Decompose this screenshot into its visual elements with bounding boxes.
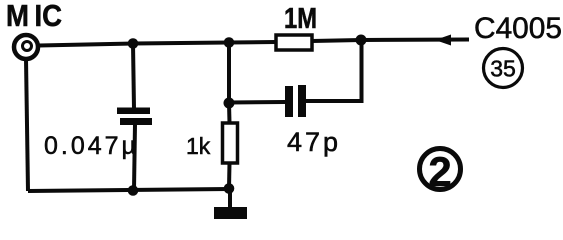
- resistor 1M: [276, 35, 312, 50]
- microphone jack connector MIC: [14, 35, 38, 59]
- wire: top rail from MIC to 1M resistor: [39, 42, 276, 46]
- wire: branch node to 1k resistor top: [227, 103, 232, 123]
- svg-text:1M: 1M: [284, 3, 317, 35]
- svg-text:2: 2: [428, 148, 451, 195]
- svg-text:1k: 1k: [186, 133, 211, 159]
- wire: middle vertical from top rail to branch node: [227, 43, 231, 104]
- svg-text:C4005: C4005: [474, 12, 562, 45]
- svg-text:M IC: M IC: [6, 0, 62, 33]
- node: junction dot at middle vertical / top rail: [224, 37, 235, 48]
- node: junction dot at 0.047u bottom / bottom rail: [128, 185, 139, 196]
- arrowhead pointing left on output wire: [435, 35, 451, 46]
- wire: bottom rail: [28, 189, 229, 191]
- node: junction dot at 1M right / 47p branch: [356, 35, 367, 46]
- svg-text:47p: 47p: [287, 127, 341, 157]
- node: junction dot at 0.047u top / top rail: [128, 38, 139, 49]
- wire: 0.047u capacitor top lead: [133, 44, 134, 110]
- wire: branch node to 47p left plate: [229, 100, 285, 105]
- capacitor 0.047u plates: [117, 108, 152, 126]
- svg-text:0.047µ: 0.047µ: [44, 132, 139, 160]
- node: junction dot at branch to 47p: [224, 98, 235, 109]
- circled pin number 35: [484, 49, 523, 88]
- wire: 0.047u capacitor bottom lead: [134, 124, 135, 190]
- wire: ground lead: [228, 189, 232, 209]
- ground symbol: [214, 207, 247, 219]
- resistor 1k: [223, 123, 238, 163]
- wire: 47p right plate up to top rail: [306, 40, 362, 101]
- circled figure number 2: [420, 148, 461, 195]
- wire: left vertical from MIC down: [26, 59, 28, 192]
- svg-text:35: 35: [490, 56, 516, 82]
- wire: top rail from 1M resistor to output: [312, 40, 469, 42]
- node: junction dot at ground node: [224, 183, 235, 194]
- capacitor 47p plates: [285, 85, 306, 117]
- wire: 1k resistor bottom lead: [227, 163, 232, 189]
